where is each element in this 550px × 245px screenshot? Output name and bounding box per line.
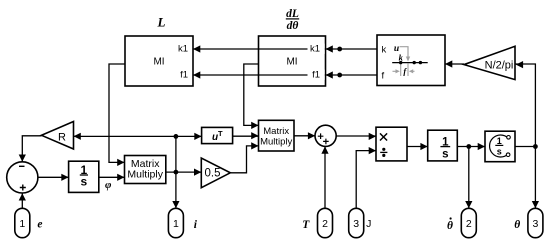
- arrowhead into MI1 f1: [193, 71, 200, 78]
- label phi: [105, 179, 112, 191]
- wire N/2/pi output to Prelookup u input: [445, 63, 464, 65]
- wire uT output to Matrix Multiply 2 input 2: [233, 135, 259, 137]
- block MI1 (L interpolation): [125, 36, 193, 86]
- arrowhead into Matrix Multiply 1 in2: [117, 174, 124, 181]
- arrowhead into outport theta-dot: [465, 201, 472, 208]
- arrowhead into MI1 k1: [193, 45, 200, 52]
- svg-text:2: 2: [466, 218, 472, 230]
- svg-text:3: 3: [532, 218, 538, 230]
- wire inport T up to Sum2 bottom input: [324, 146, 326, 208]
- block wrapped integrator 1/s C: [485, 131, 515, 162]
- block integrator 1/s A: [69, 161, 99, 192]
- outport 1 i: [168, 208, 183, 237]
- arrowhead into MI2 k1: [326, 45, 333, 52]
- outport 2 theta-dot: [461, 208, 476, 237]
- junction dot i lower: [174, 170, 179, 175]
- svg-text:e: e: [37, 218, 42, 230]
- svg-text:k1: k1: [178, 44, 188, 55]
- svg-text:1: 1: [497, 136, 502, 146]
- label L above MI1: [157, 15, 166, 30]
- svg-text:T: T: [218, 129, 223, 138]
- arrowhead into Prelookup u: [445, 60, 452, 67]
- arrowhead into Sum2 left: [308, 132, 315, 139]
- junction dot i upper: [174, 134, 179, 139]
- svg-text:s: s: [442, 149, 448, 161]
- wire integrator output phi to Matrix Multiply 1 input 2: [99, 176, 125, 178]
- wire integrator B output to wrapped integrator C: [457, 146, 485, 148]
- svg-text:Matrix: Matrix: [263, 126, 289, 137]
- svg-text:s: s: [497, 146, 502, 156]
- arrowhead into integrator B: [420, 143, 427, 150]
- arrowhead into Sum2 bottom: [321, 146, 328, 153]
- arrowhead into outport theta: [532, 201, 539, 208]
- wire Sum2 output to Product x input: [336, 135, 376, 137]
- block uT transpose: [202, 127, 233, 143]
- wire Product output to integrator 1/s B: [407, 146, 428, 148]
- wire integrator C output theta to branch: [515, 146, 536, 148]
- svg-text:R: R: [58, 131, 66, 143]
- arrowhead into Matrix Multiply 2 in1: [251, 122, 258, 129]
- svg-text:k: k: [399, 53, 404, 63]
- svg-text:φ: φ: [105, 179, 112, 191]
- svg-text:θ: θ: [514, 219, 520, 231]
- arrowhead into N/2/pi: [516, 61, 523, 68]
- wire i branch horizontal to R input and uT input: [74, 135, 202, 137]
- block Matrix Multiply 1: [125, 156, 166, 184]
- label dL/dtheta above MI2: [286, 8, 299, 32]
- wire inport J up to Product divide input: [356, 151, 376, 209]
- svg-text:T: T: [302, 219, 310, 231]
- wire theta feedback up to N/2/pi gain input: [515, 64, 535, 147]
- svg-text:J: J: [366, 218, 371, 230]
- label e: [37, 218, 42, 230]
- arrowhead into Sum1 bottom: [19, 193, 26, 200]
- svg-text:Multiply: Multiply: [127, 168, 163, 180]
- wire MI2 output down to Matrix Multiply 2 input 1: [244, 64, 259, 125]
- pin label k1 of MI1: [178, 44, 188, 55]
- wire i vertical branch down to outport 1: [175, 136, 177, 208]
- block Matrix Multiply 2: [259, 120, 295, 151]
- arrowhead into integrator A: [61, 174, 68, 181]
- arrowhead into integrator C: [478, 143, 485, 150]
- svg-text:1: 1: [19, 218, 25, 230]
- label theta: [514, 219, 520, 231]
- wire theta down to outport 3: [534, 147, 536, 209]
- svg-text:0.5: 0.5: [205, 168, 221, 180]
- junction dot on f-line: [337, 73, 342, 78]
- arrowhead into Sum1 top: [19, 155, 26, 162]
- gain R: [42, 122, 74, 150]
- svg-text:Multiply: Multiply: [260, 136, 292, 147]
- svg-text:dθ: dθ: [287, 20, 299, 32]
- pin label f1 of MI2: [308, 70, 325, 81]
- label T: [302, 219, 310, 231]
- arrowhead into uT: [194, 133, 201, 140]
- sum Sum1 (minus top, plus bottom): [7, 162, 38, 193]
- svg-text:2: 2: [322, 218, 328, 230]
- svg-text:1: 1: [173, 218, 179, 230]
- wire k-line from Prelookup k output to MI2.k1 and MI1.k1: [193, 48, 377, 50]
- svg-text:N/2/pi: N/2/pi: [485, 59, 514, 71]
- svg-text:MI: MI: [286, 57, 297, 68]
- label theta-dot: [447, 217, 453, 232]
- svg-text:f1: f1: [180, 70, 188, 81]
- block Prelookup: [377, 35, 445, 86]
- arrowhead into outport i: [172, 201, 179, 208]
- wire inport e up to Sum1 bottom: [21, 193, 23, 208]
- junction dot theta-dot: [466, 144, 471, 149]
- outport 3 theta: [528, 208, 543, 237]
- label J: [366, 218, 371, 230]
- wire theta-dot down to outport 2: [468, 147, 470, 209]
- pin label f1 of MI1: [180, 70, 188, 81]
- svg-text:L: L: [157, 15, 166, 30]
- svg-text:3: 3: [353, 218, 359, 230]
- pin label k1 of MI2: [308, 44, 325, 55]
- inport 1 e: [15, 208, 30, 237]
- arrowhead into Matrix Multiply 2 in2: [251, 132, 258, 139]
- block Product (x over divide): [376, 127, 407, 161]
- block integrator 1/s B: [428, 130, 458, 161]
- svg-text:f: f: [382, 71, 385, 82]
- arrowhead into R: [74, 133, 81, 140]
- inport 3 J: [349, 208, 364, 237]
- wire 0.5 gain output up to Matrix Multiply 2 input 3: [230, 146, 258, 173]
- arrowhead into Matrix Multiply 2 in3: [251, 142, 258, 149]
- gain 0.5: [201, 158, 230, 188]
- sum Sum2 (plus plus): [315, 125, 336, 146]
- inport 2 T: [318, 208, 333, 237]
- junction dot theta: [533, 144, 538, 149]
- gain N/2/pi: [464, 46, 515, 79]
- arrowhead into Matrix Multiply 1 in1: [117, 159, 124, 166]
- svg-text:s: s: [80, 175, 87, 189]
- svg-text:f1: f1: [312, 70, 320, 81]
- svg-text:MI: MI: [153, 57, 164, 68]
- junction dot on k-line: [337, 47, 342, 52]
- svg-text:k1: k1: [310, 44, 320, 55]
- arrowhead into Product divide input: [369, 147, 376, 154]
- arrowhead into 0.5 gain: [194, 169, 201, 176]
- svg-text:k: k: [382, 45, 387, 56]
- arrowhead into Product x input: [369, 133, 376, 140]
- Prelookup icon: u arrow, axis, k/f markers: [392, 44, 428, 76]
- wire Matrix Multiply 2 output to Sum2 left input: [294, 135, 315, 137]
- wire f-line from Prelookup f output to MI2.f1 and MI1.f1: [193, 74, 377, 76]
- wire Matrix Multiply 1 output to 0.5 gain: [166, 171, 202, 173]
- wire R gain output to Sum1 top input: [22, 136, 41, 162]
- label i: [194, 219, 198, 231]
- arrowhead into MI2 f1: [326, 71, 333, 78]
- svg-text:θ: θ: [447, 220, 453, 232]
- block MI2 (dL/dtheta interpolation): [259, 36, 326, 86]
- wire MI1 output down to Matrix Multiply 1 input 1: [109, 64, 125, 162]
- wire Sum1 output to integrator 1/s: [38, 176, 69, 178]
